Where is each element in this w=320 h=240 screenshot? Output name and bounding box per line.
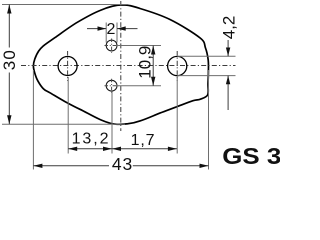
ext line 4,2 top tangent	[177, 55, 235, 57]
dim 13,2 arrow right	[103, 147, 112, 151]
svg-text:10,9: 10,9	[136, 46, 155, 79]
dim 13,2 line	[68, 148, 112, 150]
dim 1,7 arrow left	[112, 147, 121, 151]
right hole vertical centerline	[176, 51, 178, 81]
dim 2 right leader	[117, 28, 138, 30]
ext line 4,2 bottom tangent	[177, 75, 235, 77]
dim 2 left leader	[87, 28, 106, 30]
ext line left hole down	[67, 77, 69, 154]
dim 10,9 line	[152, 46, 154, 86]
pin bottom cross	[105, 85, 119, 87]
dim 1,7 line	[112, 148, 177, 150]
dim 43 right ext	[208, 70, 210, 170]
dim 30 line	[8, 5, 10, 48]
pin hole bottom	[106, 80, 117, 91]
dim 43 arrow left	[33, 164, 42, 168]
dim 2 arrow right	[98, 26, 107, 30]
svg-text:30: 30	[0, 49, 19, 70]
svg-text:43: 43	[112, 154, 133, 174]
dim 2 arrow left	[117, 26, 126, 30]
pin top cross	[105, 45, 119, 47]
extension line bottom pin center right	[117, 85, 161, 87]
dim 43 line right part	[133, 165, 209, 167]
dim 4,2 upper leader	[227, 40, 229, 56]
pin hole top	[106, 40, 117, 51]
dim 1,7 arrow right	[168, 147, 177, 151]
dim 43 arrow right	[200, 164, 209, 168]
dim 43 left ext	[32, 70, 34, 170]
dim 30 arrow down	[7, 115, 11, 124]
svg-text:1,7: 1,7	[131, 132, 156, 149]
dim 4,2 lower leader	[227, 76, 229, 110]
dim 2 left ext	[105, 23, 107, 43]
dim 13,2 arrow left	[68, 147, 77, 151]
mounting hole right	[168, 56, 187, 75]
dim 4,2 arrow up	[226, 76, 230, 85]
svg-text:13,2: 13,2	[72, 131, 111, 148]
dim 10,9 arrow down	[151, 77, 155, 86]
dim 30 arrow up	[7, 5, 11, 14]
vertical centerline	[120, 1, 122, 131]
svg-text:4,2: 4,2	[219, 16, 238, 40]
extension line top pin center right	[117, 45, 161, 47]
mounting hole left	[58, 57, 77, 76]
svg-text:GS 3: GS 3	[222, 143, 280, 169]
horizontal centerline	[21, 65, 236, 67]
dim 30 bottom ext line	[2, 123, 125, 125]
flange outline (GS 3 / TO-3 lens shape)	[33, 5, 208, 124]
dim 30 top ext line	[2, 4, 127, 6]
left hole vertical centerline	[67, 51, 69, 81]
dim 10,9 arrow up	[151, 46, 155, 55]
ext line right hole down	[176, 77, 178, 154]
svg-text:2: 2	[107, 21, 116, 38]
dim 43 line left part	[33, 165, 109, 167]
dim 2 right ext	[116, 23, 118, 43]
dim 4,2 arrow down	[226, 48, 230, 57]
ext line pin down	[111, 92, 113, 154]
